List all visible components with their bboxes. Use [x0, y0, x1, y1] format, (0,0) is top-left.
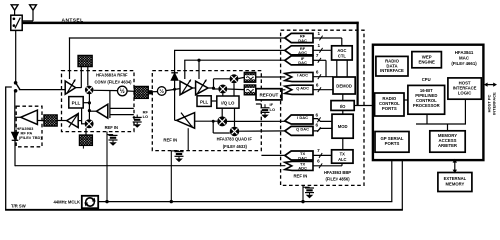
svg-text:DAC: DAC	[298, 38, 307, 43]
svg-text:6: 6	[317, 159, 320, 164]
quad IF PLL	[197, 96, 211, 107]
svg-text:PORTS: PORTS	[385, 141, 400, 146]
HFA3841 MAC box	[373, 45, 484, 160]
RF LO crystal circuit	[133, 110, 149, 128]
IF SAW filter (shared RX/TX, external)	[127, 86, 157, 98]
wire TX ADC to TX ALC	[313, 159, 342, 169]
svg-text:7: 7	[317, 148, 320, 153]
svg-text:(FILE# 4856): (FILE# 4856)	[325, 176, 350, 181]
HFA3983 RF PA dashed box	[16, 106, 42, 147]
svg-text:I/O: I/O	[340, 104, 346, 109]
label HFA3841 MAC (FILE# 4661)	[451, 50, 477, 66]
MEMORY ACCESS ARBITER box	[430, 131, 465, 152]
external memory arrow	[453, 159, 457, 174]
svg-text:EXTERNAL: EXTERNAL	[444, 176, 467, 181]
svg-text:I/Q LO: I/Q LO	[221, 100, 235, 105]
wire RX to LNA	[19, 89, 65, 91]
svg-text:HFA3683A RF/IF: HFA3683A RF/IF	[96, 73, 128, 78]
TX ALC box	[332, 150, 353, 163]
RADIO DATA INTERFACE box	[376, 56, 408, 76]
wire IF branch down to TX side / RF LO pins	[110, 90, 134, 118]
svg-text:Q ADC: Q ADC	[296, 85, 309, 90]
wire PLL to LO chain	[83, 101, 91, 104]
converter TX output amp with gain control	[67, 113, 79, 128]
svg-text:ADC: ADC	[298, 166, 307, 171]
wire IF DAC bus	[313, 53, 326, 77]
Q ADC	[285, 85, 313, 94]
wire detector to BBP TX ADC	[15, 165, 285, 167]
TX ADC	[285, 161, 313, 170]
wire I/O to MAC radio control ports	[354, 105, 375, 107]
antenna ANT1	[11, 5, 18, 15]
svg-text:LOGIC: LOGIC	[458, 90, 472, 95]
antenna diversity switch	[11, 15, 22, 30]
svg-text:I DAC: I DAC	[297, 115, 308, 120]
svg-text:LO: LO	[270, 107, 276, 112]
TX Q mixer	[230, 127, 240, 137]
svg-text:REF IN: REF IN	[105, 125, 118, 130]
wire RF AGC to AGC CTL	[313, 43, 332, 53]
44MHz oscillator	[82, 196, 98, 208]
label HFA3683A RF/IF CONV (FILE# 4634)	[94, 73, 132, 85]
svg-text:DAC: DAC	[298, 60, 307, 65]
wire image filter to RX mixer	[87, 67, 89, 86]
svg-text:DEMOD: DEMOD	[336, 84, 352, 89]
svg-text:INTERFACE: INTERFACE	[492, 92, 497, 115]
IF LO crystal circuit	[256, 102, 275, 118]
I DAC	[285, 115, 313, 124]
converter TX mixer	[85, 119, 94, 128]
wire RSSI to BBP RF AGC	[174, 49, 285, 51]
PA amplifier	[15, 110, 38, 124]
wire DEMOD to I/O	[342, 94, 344, 101]
wire input circle to VGAs	[166, 89, 180, 91]
svg-text:44MHz MCLK: 44MHz MCLK	[53, 200, 80, 205]
EXTERNAL MEMORY box	[438, 173, 472, 192]
converter REF IN riser and crystal	[105, 132, 117, 204]
RF DAC	[285, 33, 313, 42]
LNA with gain control	[65, 79, 75, 94]
svg-text:½: ½	[120, 88, 125, 95]
svg-text:T/R SW: T/R SW	[11, 204, 26, 209]
IF VGA1 with control	[180, 80, 192, 95]
HFA3863 BBP dashed box	[281, 30, 364, 185]
wire LO chain vertical	[88, 94, 91, 119]
svg-text:(FILE# TBD): (FILE# TBD)	[19, 135, 43, 140]
IF amp circle (2)	[118, 86, 128, 96]
power detector diode	[12, 117, 19, 166]
wire LNA out up to image filter	[76, 67, 82, 88]
wire PLL to I/Q LO	[211, 100, 217, 102]
antenna ANT2	[22, 5, 36, 21]
I/O box	[331, 101, 354, 111]
quad IF TX amp with gain control	[175, 113, 195, 151]
wire I/Q LO to RX mixers	[223, 83, 234, 96]
svg-text:(FILE# 4661): (FILE# 4661)	[451, 61, 477, 66]
wire AGC CTL to DEMOD	[337, 60, 347, 77]
TX I mixer	[217, 116, 227, 126]
svg-text:MOD: MOD	[338, 124, 348, 129]
RSSI detector diode	[171, 50, 178, 120]
BBP REF IN riser and crystal	[301, 185, 314, 203]
svg-text:LO: LO	[143, 114, 149, 119]
wire TX from PA up to switch	[14, 91, 16, 117]
svg-text:MEMORY: MEMORY	[446, 181, 465, 186]
svg-text:PLL: PLL	[200, 100, 209, 105]
svg-text:MAC: MAC	[459, 56, 470, 61]
WEP ENGINE box	[412, 52, 442, 68]
GP SERIAL PORTS box	[375, 132, 409, 153]
wire I/Q LO to TX mixers	[222, 108, 234, 126]
I ADC	[285, 72, 313, 81]
svg-text:½: ½	[159, 88, 164, 95]
wire RF DAC to AGC CTL	[313, 31, 342, 46]
RF AGC	[285, 46, 313, 55]
svg-text:DAC: DAC	[298, 155, 307, 160]
wire LNA gain control from BBP RF DAC	[69, 37, 291, 79]
HFA3683A RF/IF converter dashed box	[62, 71, 135, 132]
I lowpass filter	[244, 72, 256, 82]
svg-text:REF IN: REF IN	[294, 174, 308, 179]
wire I DAC to MOD	[313, 113, 332, 123]
svg-text:ARBITER: ARBITER	[438, 143, 458, 148]
host PC interface arrow	[484, 83, 497, 87]
svg-text:INTERFACE: INTERFACE	[380, 68, 404, 73]
wire GP serial ports to MCLK line	[391, 159, 393, 201]
svg-text:6: 6	[316, 122, 319, 127]
svg-text:AGC: AGC	[298, 50, 307, 55]
svg-text:PLL: PLL	[72, 101, 81, 106]
label HOST PC INTERFACE (vertical)	[487, 92, 497, 115]
RX mixer	[85, 86, 94, 95]
quad IF REF IN riser and crystal	[170, 151, 184, 204]
svg-text:PROCESSOR: PROCESSOR	[413, 103, 440, 108]
TX DAC line from BBP	[261, 154, 285, 156]
svg-text:6: 6	[316, 113, 319, 118]
svg-text:ALC: ALC	[338, 157, 346, 162]
IF VGA2 with control	[192, 80, 208, 95]
wire Q ADC to DEMOD	[313, 83, 333, 93]
quad IF input circle (2)	[157, 87, 166, 96]
TX bandpass filter (external)	[42, 115, 67, 126]
svg-text:6: 6	[316, 70, 319, 75]
wire MOD to TX ALC	[342, 138, 344, 150]
svg-text:REF IN: REF IN	[163, 138, 177, 143]
converter PLL	[69, 97, 83, 108]
wire PA input from TX filter	[37, 120, 44, 122]
svg-text:6: 6	[316, 83, 319, 88]
converter TX IF amp	[89, 104, 107, 118]
wire mixers to lowpass filters	[227, 77, 244, 89]
DEMOD box	[333, 77, 355, 94]
svg-text:I ADC: I ADC	[297, 73, 308, 78]
I DAC line from BBP	[227, 120, 287, 122]
TX DAC	[285, 151, 313, 160]
wire radio control ports to CPU	[404, 99, 408, 101]
Q DAC	[285, 126, 313, 135]
wire RX mixer out to IF	[94, 89, 118, 91]
Q lowpass filter	[244, 85, 256, 95]
svg-text:7: 7	[316, 53, 319, 58]
AGC CTL box	[332, 46, 353, 60]
svg-text:CONV (FILE# 4634): CONV (FILE# 4634)	[94, 79, 132, 84]
wire TX mixers to TX IF amp	[195, 120, 230, 133]
svg-text:PORTS: PORTS	[382, 106, 397, 111]
svg-text:HFA3783 QUAD IF: HFA3783 QUAD IF	[217, 137, 253, 142]
wire Q DAC to MOD	[313, 122, 332, 132]
label HFA3863 BBP (FILE# 4856)	[324, 170, 351, 181]
IF DAC	[285, 56, 313, 65]
wire I ADC to DEMOD	[313, 70, 333, 80]
T/R switch	[14, 81, 20, 93]
RADIO CONTROL PORTS box	[375, 93, 404, 116]
wire TX mixer to output amp	[78, 108, 84, 124]
REFOUT box	[256, 89, 282, 100]
Q mixer	[218, 85, 227, 94]
svg-text:REFOUT: REFOUT	[259, 93, 278, 98]
wire TX DAC to TX ALC	[313, 148, 332, 158]
wire VGA2 out to I/Q mixers	[208, 79, 230, 90]
wire ANTSEL (switch to BBP AGC area)	[22, 22, 359, 106]
svg-text:(FILE# 4633): (FILE# 4633)	[223, 144, 248, 149]
wire T/R SW control line (bottom loop to MAC)	[5, 86, 403, 210]
label HFA3783 QUAD IF (FILE# 4633)	[217, 137, 253, 149]
wire Q filter to BBP Q ADC	[256, 89, 286, 91]
CPU 16-bit pipelined control processor box	[408, 85, 445, 114]
svg-text:1: 1	[318, 31, 321, 36]
wire I/O to MOD	[342, 110, 344, 114]
wire antenna switch common down to T/R switch	[15, 30, 17, 81]
svg-text:HFA3863 BBP: HFA3863 BBP	[324, 170, 351, 175]
svg-text:HFA3841: HFA3841	[455, 50, 474, 55]
wire CPU to memory bus	[416, 99, 466, 131]
I mixer	[230, 74, 239, 83]
Q DAC line from BBP	[239, 130, 287, 132]
svg-text:CPU: CPU	[422, 77, 431, 82]
HFA3783 QUAD IF dashed box	[152, 71, 261, 151]
svg-text:1: 1	[318, 43, 321, 48]
TX modulated filter below box	[79, 128, 92, 148]
wire MCLK distribution line	[98, 201, 392, 203]
label HFA3983 RF PA (FILE# TBD)	[16, 126, 42, 140]
RX image filter (external)	[78, 55, 92, 66]
wire I filter to BBP I ADC	[256, 76, 286, 78]
svg-text:CTL: CTL	[338, 53, 346, 58]
svg-text:ANTSEL: ANTSEL	[62, 17, 84, 23]
svg-text:Q DAC: Q DAC	[296, 127, 309, 132]
HOST INTERFACE LOGIC box	[448, 78, 482, 99]
svg-text:ENGINE: ENGINE	[418, 60, 435, 65]
wire VGA gain control from BBP IF DAC	[184, 59, 285, 79]
I/Q LO box	[217, 96, 239, 108]
MOD box	[332, 114, 353, 138]
